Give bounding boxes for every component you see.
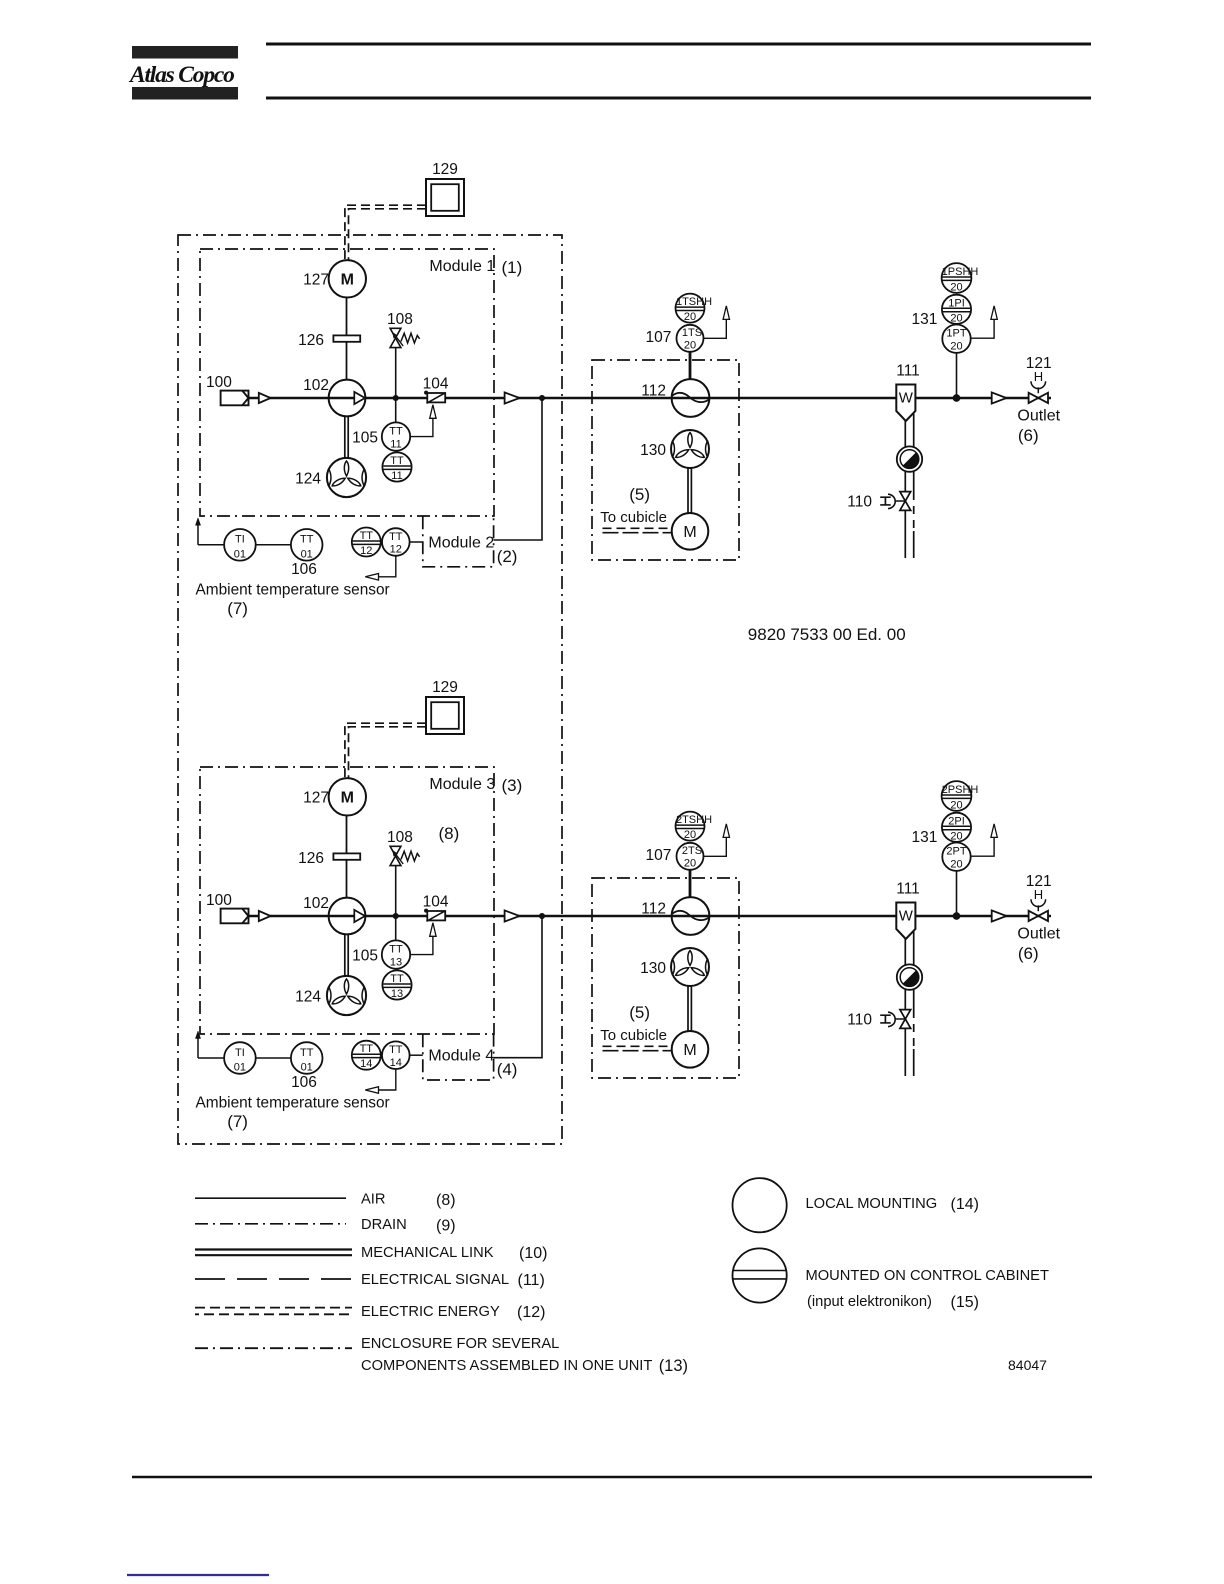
wire mechanical link fan to motor xyxy=(687,468,689,513)
svg-text:14: 14 xyxy=(360,1058,372,1070)
svg-text:9820 7533 00 Ed. 00: 9820 7533 00 Ed. 00 xyxy=(748,625,906,644)
legend cabinet mounting symbol xyxy=(733,1248,787,1302)
svg-text:(13): (13) xyxy=(659,1357,688,1375)
enclosure box Module 3 xyxy=(200,767,494,1034)
legend electrical signal xyxy=(195,1278,352,1280)
svg-text:12: 12 xyxy=(360,545,372,557)
svg-text:LOCAL MOUNTING: LOCAL MOUNTING xyxy=(806,1196,938,1212)
svg-text:Ambient temperature sensor: Ambient temperature sensor xyxy=(196,581,390,598)
switch 1TSHH on cabinet xyxy=(676,294,705,323)
svg-text:130: 130 xyxy=(640,442,666,459)
switch 2PSHH on cabinet xyxy=(942,781,972,811)
ambient temperature sensor TT 01 106 xyxy=(291,1042,323,1074)
svg-text:13: 13 xyxy=(391,988,403,1000)
svg-text:(10): (10) xyxy=(519,1245,547,1262)
wire xyxy=(410,1054,423,1056)
header rule top xyxy=(266,43,1091,46)
wire motor shaft xyxy=(346,816,348,854)
drain trap xyxy=(897,446,922,471)
svg-text:2PSHH: 2PSHH xyxy=(942,784,979,796)
footer rule xyxy=(132,1476,1092,1479)
legend electric energy xyxy=(195,1307,352,1309)
wire xyxy=(256,544,291,546)
wire sensor signal arrow xyxy=(704,319,727,338)
svg-text:(8): (8) xyxy=(436,1192,456,1209)
svg-text:TT: TT xyxy=(389,943,403,955)
svg-text:(5): (5) xyxy=(629,1003,650,1022)
svg-text:2PI: 2PI xyxy=(948,815,965,827)
svg-text:M: M xyxy=(683,524,696,541)
svg-text:Module 3: Module 3 xyxy=(429,776,495,793)
svg-text:(input elektronikon): (input elektronikon) xyxy=(807,1294,932,1310)
sensor TT14 xyxy=(382,1041,410,1069)
svg-text:112: 112 xyxy=(641,383,666,400)
control valve 104 xyxy=(424,391,428,395)
control valve 104 xyxy=(424,909,428,913)
svg-text:20: 20 xyxy=(684,340,696,352)
cooler 112 xyxy=(672,897,710,935)
wire shaft to compressor xyxy=(346,342,348,380)
fan 130 xyxy=(671,430,709,468)
svg-text:(2): (2) xyxy=(497,547,518,566)
wire drain from separator xyxy=(904,939,906,1076)
wire motor shaft xyxy=(346,298,348,336)
wire mechanical link fan to motor xyxy=(687,986,689,1031)
sensor 2TS 107 xyxy=(677,843,704,870)
svg-text:129: 129 xyxy=(432,161,458,178)
svg-text:TT: TT xyxy=(360,1043,374,1055)
wire ambient sensor riser xyxy=(197,1037,199,1059)
motor M fan xyxy=(672,513,709,550)
sensor TT12 xyxy=(382,528,410,556)
legend mechanical link xyxy=(195,1248,352,1250)
wire sensor to valve 104 xyxy=(410,419,433,437)
transmitter 1PT xyxy=(942,325,970,353)
switch 1PSHH on cabinet xyxy=(942,263,972,293)
wire ambient sensor riser xyxy=(197,523,199,545)
ambient temperature sensor TI 01 xyxy=(224,1042,256,1074)
svg-text:To cubicle: To cubicle xyxy=(600,509,667,526)
svg-text:127: 127 xyxy=(303,272,329,289)
svg-text:COMPONENTS ASSEMBLED IN ONE UN: COMPONENTS ASSEMBLED IN ONE UNIT xyxy=(361,1358,652,1374)
outlet valve 121 xyxy=(1029,911,1039,921)
wire shaft to compressor xyxy=(346,860,348,898)
wire electric energy to cubicle xyxy=(603,1045,672,1047)
svg-text:110: 110 xyxy=(847,494,872,511)
enclosure box Module 2 xyxy=(423,516,494,567)
svg-text:(12): (12) xyxy=(517,1304,545,1321)
svg-text:(7): (7) xyxy=(227,599,248,618)
svg-text:W: W xyxy=(899,908,914,925)
junction node outlet xyxy=(953,912,961,920)
svg-text:20: 20 xyxy=(684,858,696,870)
svg-text:124: 124 xyxy=(295,989,321,1006)
svg-text:(8): (8) xyxy=(439,824,460,843)
svg-text:11: 11 xyxy=(391,470,402,482)
svg-text:20: 20 xyxy=(684,311,696,323)
svg-text:TT: TT xyxy=(389,425,403,437)
wire transmitter to line xyxy=(956,871,958,916)
flow arrow after module xyxy=(505,910,520,921)
wire electric energy to cubicle xyxy=(603,527,672,529)
svg-text:20: 20 xyxy=(950,341,962,353)
svg-text:108: 108 xyxy=(387,311,413,328)
svg-text:TT: TT xyxy=(300,1047,314,1059)
indicator 1PI on cabinet xyxy=(942,295,971,324)
legend enclosure line xyxy=(195,1347,352,1349)
indicator TT12 on cabinet xyxy=(352,528,381,557)
water separator W 111 xyxy=(896,385,915,422)
svg-text:(4): (4) xyxy=(497,1060,518,1079)
svg-text:2TSHH: 2TSHH xyxy=(676,814,712,826)
svg-text:121: 121 xyxy=(1026,355,1052,372)
svg-text:TT: TT xyxy=(390,455,404,467)
wire mechanical link to fan xyxy=(344,416,346,458)
wire xyxy=(410,541,423,543)
legend local mounting symbol xyxy=(733,1178,787,1232)
outer enclosure box (7) assembly xyxy=(178,235,562,1144)
svg-text:(11): (11) xyxy=(518,1272,545,1289)
svg-text:106: 106 xyxy=(291,1074,317,1091)
svg-text:106: 106 xyxy=(291,561,317,578)
svg-text:01: 01 xyxy=(234,1062,246,1074)
svg-text:11: 11 xyxy=(390,439,401,451)
junction node to module 2 xyxy=(539,395,545,401)
junction node outlet xyxy=(953,394,961,402)
svg-text:1TS: 1TS xyxy=(682,327,702,339)
svg-text:126: 126 xyxy=(298,850,324,867)
junction node xyxy=(393,913,399,919)
indicator TT11 on cabinet xyxy=(382,452,411,481)
svg-text:TI: TI xyxy=(235,1047,245,1059)
svg-text:(6): (6) xyxy=(1018,944,1039,963)
ambient temperature sensor TT 01 106 xyxy=(291,529,323,561)
safety valve 108 xyxy=(390,846,401,856)
svg-text:MECHANICAL LINK: MECHANICAL LINK xyxy=(361,1245,494,1261)
svg-text:121: 121 xyxy=(1026,873,1052,890)
svg-text:M: M xyxy=(683,1042,696,1059)
svg-text:1TSHH: 1TSHH xyxy=(676,296,712,308)
svg-text:111: 111 xyxy=(896,363,920,380)
svg-text:AIR: AIR xyxy=(361,1192,385,1208)
svg-text:(7): (7) xyxy=(227,1112,248,1131)
wire cooler to sensor xyxy=(689,352,692,379)
wire pressure signal arrow xyxy=(971,320,994,339)
enclosure box cooler (5) xyxy=(592,878,739,1078)
svg-text:127: 127 xyxy=(303,790,329,807)
svg-text:129: 129 xyxy=(432,679,458,696)
flow arrow inlet xyxy=(259,393,271,403)
svg-text:14: 14 xyxy=(390,1057,402,1069)
motor M 127 xyxy=(329,778,366,815)
svg-text:1PI: 1PI xyxy=(948,297,965,309)
safety valve 108 xyxy=(390,328,401,338)
svg-text:ELECTRIC ENERGY: ELECTRIC ENERGY xyxy=(361,1304,500,1320)
svg-text:126: 126 xyxy=(298,332,324,349)
svg-text:Module 2: Module 2 xyxy=(428,534,494,551)
svg-text:12: 12 xyxy=(390,544,402,556)
transmitter 2PT xyxy=(942,843,970,871)
motor M 127 xyxy=(329,260,366,297)
indicator 2PI on cabinet xyxy=(942,813,971,842)
svg-text:01: 01 xyxy=(301,1062,313,1074)
sensor 1TS 107 xyxy=(677,325,704,352)
legend air line xyxy=(195,1197,346,1199)
control module 129 xyxy=(426,179,464,216)
wire Module 4 signal riser xyxy=(494,916,542,1058)
drain trap xyxy=(897,964,922,989)
svg-text:102: 102 xyxy=(303,377,329,394)
drain valve 110 xyxy=(900,1010,911,1019)
svg-text:20: 20 xyxy=(950,799,962,811)
wire drain from separator xyxy=(904,421,906,558)
svg-text:(9): (9) xyxy=(436,1218,456,1235)
wire sensor signal arrow xyxy=(704,837,727,856)
legend drain line xyxy=(195,1223,346,1225)
svg-text:2PT: 2PT xyxy=(946,846,966,858)
wire mechanical link to fan xyxy=(344,934,346,976)
indicator TT14 on cabinet xyxy=(352,1041,381,1070)
enclosure box Module 4 xyxy=(423,1034,494,1080)
svg-text:(5): (5) xyxy=(629,485,650,504)
svg-text:TT: TT xyxy=(389,531,403,543)
svg-text:100: 100 xyxy=(206,892,232,909)
outlet valve 121 xyxy=(1029,393,1039,403)
svg-text:M: M xyxy=(341,790,354,807)
svg-text:102: 102 xyxy=(303,895,329,912)
svg-text:104: 104 xyxy=(423,893,449,910)
svg-text:100: 100 xyxy=(206,374,232,391)
svg-text:(15): (15) xyxy=(951,1294,979,1311)
wire sensor arrow down xyxy=(379,556,396,577)
svg-text:ELECTRICAL SIGNAL: ELECTRICAL SIGNAL xyxy=(361,1272,509,1288)
svg-text:104: 104 xyxy=(423,375,449,392)
svg-text:TT: TT xyxy=(390,973,404,985)
wire main air line Module 1 xyxy=(249,397,1052,400)
drain valve 110 xyxy=(900,492,911,501)
Atlas Copco logo xyxy=(128,46,238,100)
svg-text:110: 110 xyxy=(847,1012,872,1029)
svg-text:TT: TT xyxy=(360,530,374,542)
wire pressure signal arrow xyxy=(971,838,994,857)
coupling 126 xyxy=(333,853,360,859)
water separator W 111 xyxy=(896,903,915,940)
control module 129 xyxy=(426,697,464,734)
svg-text:Outlet: Outlet xyxy=(1017,408,1060,425)
flow arrow outlet xyxy=(992,392,1007,403)
svg-text:To cubicle: To cubicle xyxy=(600,1027,667,1044)
motor M fan xyxy=(672,1031,709,1068)
svg-text:107: 107 xyxy=(646,847,672,864)
air inlet filter 100 xyxy=(221,391,249,406)
air inlet filter 100 xyxy=(221,909,249,924)
ambient temperature sensor TI 01 xyxy=(224,529,256,561)
wire main air line Module 3 xyxy=(249,915,1052,918)
svg-text:1PT: 1PT xyxy=(946,328,966,340)
svg-text:1PSHH: 1PSHH xyxy=(942,266,979,278)
svg-text:107: 107 xyxy=(646,329,672,346)
svg-text:13: 13 xyxy=(390,957,402,969)
flow arrow inlet xyxy=(259,911,271,921)
compressor element 102 xyxy=(329,380,366,417)
svg-text:ENCLOSURE FOR SEVERAL: ENCLOSURE FOR SEVERAL xyxy=(361,1336,559,1352)
flow arrow outlet xyxy=(992,910,1007,921)
footer link line xyxy=(127,1574,269,1576)
temperature sensor TT 105 xyxy=(395,916,397,941)
svg-text:2TS: 2TS xyxy=(682,845,702,857)
fan 124 xyxy=(327,976,366,1015)
indicator TT13 on cabinet xyxy=(382,970,411,999)
svg-text:MOUNTED ON CONTROL CABINET: MOUNTED ON CONTROL CABINET xyxy=(806,1268,1049,1284)
svg-text:131: 131 xyxy=(912,829,938,846)
header rule bottom xyxy=(266,97,1091,100)
svg-text:(14): (14) xyxy=(951,1196,979,1213)
svg-text:(1): (1) xyxy=(502,258,523,277)
svg-text:TI: TI xyxy=(235,534,245,546)
svg-text:(3): (3) xyxy=(502,776,523,795)
temperature sensor TT 105 xyxy=(395,398,397,423)
flow arrow after module xyxy=(505,392,520,403)
wire sensor arrow down xyxy=(379,1069,396,1090)
svg-text:20: 20 xyxy=(950,830,962,842)
wire transmitter to line xyxy=(956,353,958,398)
cooler 112 xyxy=(672,379,710,417)
svg-text:Module 4: Module 4 xyxy=(428,1048,494,1065)
svg-text:TT: TT xyxy=(300,534,314,546)
switch 2TSHH on cabinet xyxy=(676,812,705,841)
svg-text:DRAIN: DRAIN xyxy=(361,1217,407,1233)
svg-text:20: 20 xyxy=(950,281,962,293)
wire electric energy 129 to motor xyxy=(345,723,426,779)
svg-text:124: 124 xyxy=(295,471,321,488)
svg-text:130: 130 xyxy=(640,960,666,977)
svg-text:01: 01 xyxy=(234,548,246,560)
svg-text:TT: TT xyxy=(389,1044,403,1056)
enclosure box Module 1 xyxy=(200,249,494,516)
svg-text:131: 131 xyxy=(912,311,938,328)
svg-text:105: 105 xyxy=(352,430,378,447)
junction node xyxy=(393,395,399,401)
svg-text:112: 112 xyxy=(641,901,666,918)
svg-text:20: 20 xyxy=(950,312,962,324)
junction node to module 2 xyxy=(539,913,545,919)
wire to safety valve xyxy=(395,866,397,916)
svg-text:105: 105 xyxy=(352,948,378,965)
svg-text:Outlet: Outlet xyxy=(1017,926,1060,943)
svg-text:01: 01 xyxy=(301,548,313,560)
fan 124 xyxy=(327,458,366,497)
wire xyxy=(256,1057,291,1059)
coupling 126 xyxy=(333,335,360,341)
svg-text:M: M xyxy=(341,272,354,289)
svg-text:111: 111 xyxy=(896,881,920,898)
svg-text:20: 20 xyxy=(684,829,696,841)
wire electric energy 129 to motor xyxy=(345,205,426,261)
svg-text:(6): (6) xyxy=(1018,426,1039,445)
svg-text:Ambient temperature sensor: Ambient temperature sensor xyxy=(196,1095,390,1112)
svg-text:Module 1: Module 1 xyxy=(429,258,495,275)
wire sensor to valve 104 xyxy=(410,937,433,955)
svg-text:20: 20 xyxy=(950,859,962,871)
svg-text:108: 108 xyxy=(387,829,413,846)
wire to safety valve xyxy=(395,348,397,398)
wire Module 2 signal riser xyxy=(494,398,542,540)
wire cooler to sensor xyxy=(689,870,692,897)
svg-text:W: W xyxy=(899,390,914,407)
compressor element 102 xyxy=(329,898,366,935)
svg-text:84047: 84047 xyxy=(1008,1357,1047,1373)
fan 130 xyxy=(671,948,709,986)
enclosure box cooler (5) xyxy=(592,360,739,560)
svg-text:Atlas Copco: Atlas Copco xyxy=(128,62,234,88)
